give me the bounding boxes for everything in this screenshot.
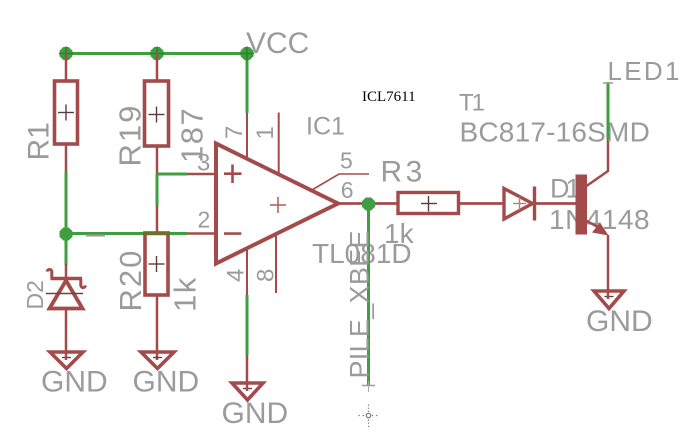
wire D2 to ground [65,309,68,360]
junction at R19 top [151,47,164,60]
wire R19 to R20 net vertical [156,174,159,205]
svg-text:GND: GND [133,366,200,399]
pin 1 stub [278,113,280,175]
pin 2 stub [187,232,216,235]
svg-text:R20: R20 [113,249,148,312]
svg-text:8: 8 [253,269,280,282]
emitter line [587,221,601,228]
svg-text:R19: R19 [113,104,148,167]
pin 7 stub [246,113,248,160]
wire R19 bottom pin stub [156,146,159,174]
wire R19 to pin3 net horizontal [157,173,187,176]
pin 5 stub [311,174,369,191]
wire horizontal net to op-amp inverting input [66,232,187,235]
svg-text:GND: GND [586,305,653,338]
wire R1 bottom pin stub [65,144,68,172]
wire R20 bottom pin stub [156,295,159,360]
ground origin ticks [62,357,71,359]
ground under op-amp [232,383,263,400]
wire VCC rail [66,52,247,55]
op-amp origin cross [270,204,286,206]
resistor R1 [55,81,78,144]
transistor T1 [576,175,588,235]
wire R1 to junction net [65,172,68,234]
junction node left [60,228,73,241]
svg-text:D2: D2 [22,280,48,309]
op-amp plus marker [224,172,242,175]
svg-text:4: 4 [223,269,250,282]
stray gray dash [86,235,105,237]
svg-text:2: 2 [198,207,211,233]
net LED1 wire [607,82,610,139]
svg-text:R3: R3 [381,156,426,189]
resistor R20 [145,233,168,295]
pin 3 stub [187,173,216,176]
resistor R19 [145,81,169,146]
wire R1 top pin stub [65,53,68,81]
svg-text:3: 3 [197,150,210,177]
ground under T1 [594,291,624,309]
wire R3 to diode [460,202,504,205]
svg-text:BC817-16SMD: BC817-16SMD [460,117,651,148]
diode D2 zener [65,264,68,282]
wire overlap on R20 cap [143,232,170,235]
collector line [587,139,609,186]
svg-text:PILE_XBEE: PILE_XBEE [345,230,375,378]
svg-text:5: 5 [340,148,353,174]
junction at VCC pin [241,47,254,60]
svg-text:R1: R1 [23,122,56,160]
svg-text:GND: GND [41,366,108,399]
wire R19 top pin stub [156,53,159,81]
svg-text:1: 1 [252,126,279,139]
svg-text:IC1: IC1 [306,113,345,141]
ground under R20 [141,352,174,369]
wire R20 top pin stub [156,205,159,233]
diode D1 [504,189,533,220]
pin 6 output stub [338,202,397,205]
junction at R1 top [60,47,73,60]
svg-text:D1: D1 [550,174,579,204]
pin 4 stub [246,248,248,296]
cursor crosshair [359,415,366,417]
ground under D2 [50,352,83,369]
wire pin4 to ground net [246,295,249,355]
pin 8 stub [275,234,277,293]
op-amp minus marker [224,232,241,235]
junction at op-amp output [362,198,375,211]
junction origin crosses [59,53,73,55]
svg-text:7: 7 [221,126,248,139]
svg-text:LED1: LED1 [608,56,682,86]
wire end cross [362,385,375,387]
svg-text:T1: T1 [459,90,485,117]
wire diode to transistor base [536,202,576,205]
resistor R3 [398,193,459,214]
op-amp IC1 [216,144,338,264]
wire emitter to ground [607,235,610,299]
svg-text:ICL7611: ICL7611 [362,89,416,105]
net PILE_XBEE wire down [367,204,370,386]
svg-text:VCC: VCC [246,27,309,60]
svg-text:6: 6 [341,177,354,203]
wire end cross LED [603,82,613,84]
svg-text:1k: 1k [384,218,415,249]
wire VCC drop to pin7 [246,54,249,114]
wire junction to D2 net [65,234,68,265]
svg-text:GND: GND [222,397,289,430]
svg-text:1k: 1k [168,276,203,312]
emitter arrow [592,223,609,236]
